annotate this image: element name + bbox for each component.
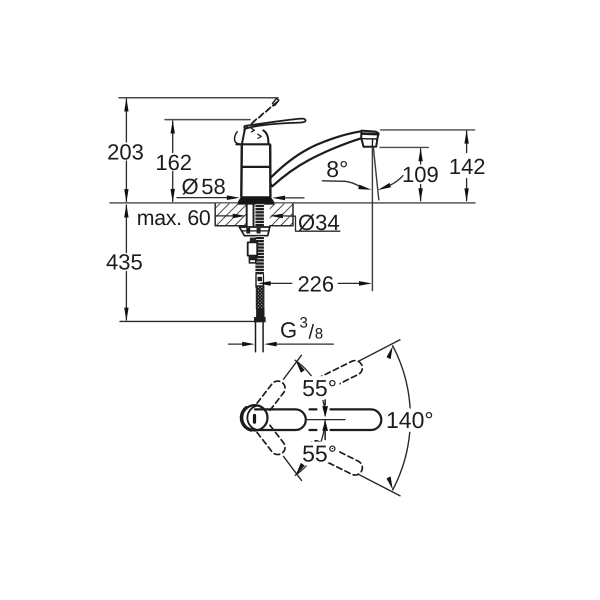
140 deg arc <box>393 346 411 490</box>
spout lower edge <box>272 138 361 186</box>
svg-text:109: 109 <box>402 162 439 187</box>
svg-text:Ø34: Ø34 <box>298 210 340 235</box>
dia 58 right arrow + line <box>272 196 285 201</box>
svg-text:3: 3 <box>300 315 308 332</box>
aerator centre extension line (vertical, to 226 dim) <box>371 148 373 291</box>
countertop cross-section right (hatched) <box>270 204 293 226</box>
55 deg arc lower <box>295 420 325 475</box>
thick lower-left body arc <box>241 408 251 430</box>
svg-text:/: / <box>309 321 315 343</box>
chevron mark 2 on handle <box>258 134 262 138</box>
55 deg arc upper <box>295 360 325 415</box>
svg-text:G: G <box>280 318 297 343</box>
threaded stud through countertop <box>255 204 264 227</box>
connection nut 3/8 <box>254 317 266 322</box>
svg-text:55°: 55° <box>302 375 337 401</box>
extension line 142 (from spout top) <box>381 129 475 131</box>
raised lever butt end (dashed) <box>243 127 248 132</box>
shank through countertop: tube walls <box>247 204 254 227</box>
dimension line 142 <box>466 131 468 201</box>
mounting washer / flange under counter <box>239 227 269 236</box>
faucet body circle (plan) <box>242 405 267 430</box>
handle body under lever <box>242 130 245 145</box>
countertop surface line <box>110 202 475 204</box>
gap edges of stadium (short ticks) <box>306 419 346 421</box>
labels 55 deg upper, lower, 140 deg (white bg over arcs) <box>302 375 433 467</box>
inner dashed spout position upper (55 deg) <box>257 381 285 412</box>
8 deg leader left <box>322 181 360 187</box>
svg-text:55°: 55° <box>302 441 337 467</box>
inner dashed spout position lower (-55 deg) <box>257 424 285 455</box>
inner arc (escutcheon edge) <box>247 406 258 431</box>
arrowheads 55 lower arc <box>322 420 328 431</box>
body joint line <box>242 166 270 168</box>
base plate (dark band on countertop) <box>238 196 275 204</box>
svg-text:8: 8 <box>315 326 323 343</box>
handle left small curve <box>235 132 239 144</box>
arrowheads 55 upper arc <box>296 360 305 373</box>
water stream line (8 deg) <box>373 148 378 200</box>
lever raised tip outline <box>272 98 279 105</box>
braided hose <box>258 277 263 281</box>
extension line inner lower <box>284 456 302 480</box>
svg-text:142: 142 <box>449 154 486 179</box>
threaded stud below washer <box>255 236 264 275</box>
extension line (162 ref, top of lever at rest) <box>165 119 250 121</box>
extension line outer upper <box>359 340 400 361</box>
countertop cross-section left (hatched) <box>215 204 246 226</box>
spout root cap <box>270 177 272 187</box>
8 deg leader right <box>378 183 391 190</box>
arrowheads 140 arc <box>387 346 393 359</box>
dimension line 203 <box>125 99 127 202</box>
G 3/8 dimension arrows <box>229 343 244 345</box>
hose crimp <box>256 309 264 317</box>
supply tube walls <box>256 322 264 352</box>
svg-text:435: 435 <box>106 250 143 275</box>
spout plan solid: short stadium <box>255 409 306 430</box>
reference line bottom of 435 (hose end) <box>120 320 255 322</box>
fixing nut on stud <box>250 238 256 243</box>
lever tick inside circle <box>253 414 256 424</box>
hose neck <box>255 275 257 287</box>
svg-text:203: 203 <box>107 139 144 164</box>
extension line outer lower <box>359 475 400 496</box>
body left edge <box>240 145 243 197</box>
svg-text:226: 226 <box>297 271 334 296</box>
spout upper edge <box>272 131 362 176</box>
outer dashed spout position upper (70 deg) <box>308 361 362 395</box>
lever raised (dashed) <box>247 101 278 127</box>
svg-text:Ø 58: Ø 58 <box>182 174 226 199</box>
dimension line 162 <box>172 121 174 202</box>
chevron mark 1 on handle <box>251 128 254 132</box>
svg-text:max. 60: max. 60 <box>137 206 211 230</box>
svg-text:140°: 140° <box>386 407 434 433</box>
dia 34 dimension: left arrow <box>216 215 233 217</box>
dimension line 435 <box>125 205 127 320</box>
body right edge <box>269 145 272 197</box>
outer dashed spout position lower (-70 deg) <box>308 441 362 475</box>
dia 34 right arrow + leader to label <box>270 214 283 219</box>
dimension line 226 <box>258 281 271 286</box>
extension line top (203 ref, top of raised lever) <box>119 97 278 99</box>
handle bottom line <box>237 143 270 145</box>
svg-text:162: 162 <box>155 150 192 175</box>
extension line 109 (from aerator) <box>380 146 428 148</box>
spout plan solid: outer part <box>310 409 382 430</box>
spout head / aerator <box>361 131 378 147</box>
dia 58 dimension: underline + left arrow <box>177 197 228 199</box>
dimension line 109 <box>420 149 422 201</box>
svg-text:8°: 8° <box>326 156 348 182</box>
extension line inner upper <box>284 355 302 379</box>
lever (rest position) <box>244 119 305 129</box>
